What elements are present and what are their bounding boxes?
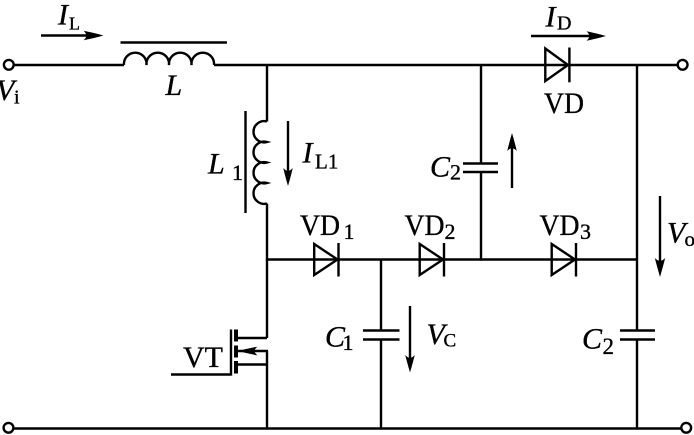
svg-text:1: 1 <box>343 330 354 355</box>
wire vertical right rail upper (top rail to middle rail) <box>636 65 638 331</box>
diode VD2 <box>420 243 444 277</box>
wire vertical drain lead: middle rail node down to MOSFET <box>266 260 268 339</box>
label C2 bottom <box>582 323 614 360</box>
wire top rail: terminal to inductor L <box>14 64 124 66</box>
label VD1 <box>300 209 355 244</box>
svg-text:L1: L1 <box>315 150 338 174</box>
svg-text:2: 2 <box>603 334 615 359</box>
svg-text:C: C <box>582 323 603 356</box>
label C2 top <box>430 151 461 185</box>
wire top rail: L to output terminal (through VD) <box>214 64 677 66</box>
svg-text:3: 3 <box>580 219 591 244</box>
diode VD3 <box>552 243 576 277</box>
transistor VT (MOSFET) <box>171 330 268 376</box>
diode VD <box>545 48 569 83</box>
wire vertical from top rail down to L1 <box>266 65 268 122</box>
label VD3 <box>540 209 592 244</box>
capacitor C1 <box>363 331 400 340</box>
wire vertical source lead to bottom rail <box>266 351 268 430</box>
svg-text:2: 2 <box>450 160 461 185</box>
svg-text:L: L <box>69 14 80 34</box>
arrow IL <box>41 31 104 41</box>
capacitor C2 (top) <box>463 164 498 173</box>
wire middle rail: node to right rail (through VD1 VD2 VD3) <box>267 258 637 260</box>
wire vertical branch C1 upper segment <box>380 260 382 332</box>
svg-text:VT: VT <box>183 341 223 374</box>
svg-text:C: C <box>444 331 457 352</box>
label IL <box>57 0 80 34</box>
svg-text:VD: VD <box>540 209 580 242</box>
svg-text:o: o <box>685 227 694 251</box>
arrow IL1 <box>283 121 293 186</box>
capacitor C2 (bottom) <box>620 331 655 340</box>
label IL1 <box>302 137 339 174</box>
label VD2 <box>405 209 456 244</box>
label VC <box>427 318 457 352</box>
diode VD1 <box>314 243 338 277</box>
terminal top-left (Vi+) <box>4 60 14 70</box>
svg-text:VD: VD <box>300 209 340 242</box>
svg-text:L: L <box>207 148 225 181</box>
arrow C2-top current (up) <box>507 133 517 188</box>
label L1 <box>207 148 243 186</box>
terminal top-right (Vo+) <box>678 60 688 70</box>
arrow ID <box>531 31 606 41</box>
wire bottom rail <box>14 427 682 429</box>
inductor L <box>121 43 228 66</box>
svg-text:D: D <box>557 13 571 35</box>
arrow VC (down) <box>405 306 415 373</box>
label ID <box>545 1 572 35</box>
terminal bottom-right <box>681 423 691 433</box>
svg-text:i: i <box>14 87 20 109</box>
svg-text:2: 2 <box>445 219 456 244</box>
wire vertical branch C2-top lower segment <box>480 172 482 261</box>
inductor L1 <box>246 111 268 213</box>
wire vertical branch C1 lower segment <box>380 340 382 430</box>
svg-text:1: 1 <box>344 219 355 244</box>
arrow Vo (down) <box>655 196 665 277</box>
svg-text:1: 1 <box>232 160 243 185</box>
terminal bottom-left <box>4 423 14 433</box>
svg-text:L: L <box>165 69 183 102</box>
label C1 <box>325 321 354 356</box>
wire vertical branch C2-top upper segment <box>480 65 482 164</box>
label Vo <box>667 217 694 252</box>
svg-text:C: C <box>430 151 451 184</box>
wire L1 bottom to middle rail node <box>266 204 268 261</box>
svg-text:VD: VD <box>405 209 445 242</box>
wire vertical right rail lower (C2 to bottom rail) <box>636 340 638 430</box>
label Vi <box>0 74 20 109</box>
svg-text:VD: VD <box>544 87 584 120</box>
